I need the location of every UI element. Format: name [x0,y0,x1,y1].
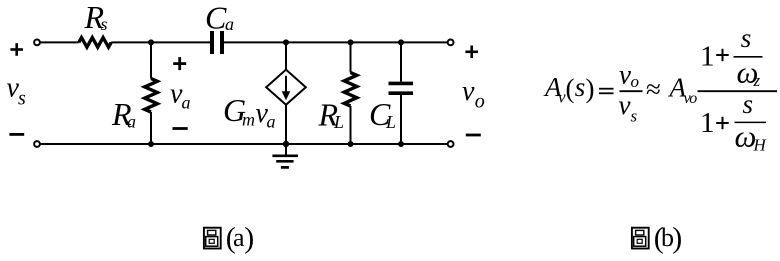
svg-text:o: o [689,90,697,107]
capacitor CL plates [389,83,414,93]
label Rs [84,0,108,35]
svg-text:s: s [631,107,638,126]
node dot bottom of Gm source (ground) [283,141,289,147]
label RL [318,97,345,133]
svg-text:v: v [462,76,475,107]
wire Gm source branch top [285,42,287,69]
svg-text:m: m [242,110,255,130]
output terminal bottom [448,141,454,147]
eq denominator plus [716,117,729,129]
svg-text:a: a [267,111,276,131]
resistor RL zigzag [344,73,357,107]
svg-text:v: v [619,90,631,120]
svg-text:1: 1 [700,107,715,139]
wire bottom rail [40,143,447,145]
svg-text:o: o [475,91,485,113]
svg-text:z: z [753,71,761,90]
eq fraction bar small [620,90,643,92]
resistor Ra zigzag [145,79,158,113]
wire RL branch top [350,42,352,72]
output terminal top [448,40,454,46]
eq numerator small bar [734,56,763,58]
wire top rail Rs to Ca [111,41,210,43]
svg-text:): ) [672,221,682,254]
input terminal bottom [34,141,40,147]
svg-text:≈: ≈ [646,74,661,104]
node dot bottom of Ra [148,141,154,147]
minus sign va [173,127,188,130]
svg-text:1: 1 [700,40,715,72]
label va [170,79,191,113]
eq denominator small bar [735,121,767,123]
svg-text:s: s [18,88,26,110]
svg-text:a: a [233,223,245,252]
svg-text:s: s [101,14,108,34]
wire CL branch top [400,42,402,81]
node dot top of Ra [148,39,154,45]
svg-text:a: a [225,14,234,34]
equation Av(s)= vo/vs approx Avo (1+s/wz)/(1+s/wH) [543,23,777,154]
label Ra [111,96,136,132]
wire Ra branch bottom [150,112,152,144]
node dot top of Gm source [283,39,289,45]
wire CL branch bottom [400,95,402,144]
svg-text:a: a [182,93,191,113]
node dot bottom of CL [398,141,404,147]
wire Gm source branch bottom [285,105,287,144]
caption figure a : drawn CJK glyph for tu [204,228,221,249]
svg-text:H: H [753,136,768,155]
current source arrow [285,76,287,94]
svg-text:v: v [619,60,631,90]
wire top rail Ca to output terminal [224,41,447,43]
label vo [462,76,485,113]
svg-text:s: s [741,23,752,53]
eq equals sign [599,89,614,94]
plus sign input [10,43,23,56]
plus sign va [173,57,186,70]
minus sign output [466,134,481,137]
label CL [369,96,396,132]
svg-text:s: s [743,89,754,119]
minus sign input [9,133,24,136]
eq numerator plus [716,49,729,61]
label Gm va [223,92,276,132]
wire RL branch bottom [350,106,352,144]
svg-text:L: L [333,112,344,132]
resistor Rs zigzag [79,38,111,48]
node dot bottom of RL [348,141,354,147]
eq main fraction bar [698,90,778,92]
svg-text:): ) [244,221,254,254]
label vs [7,73,27,110]
svg-text:o: o [631,72,640,91]
capacitor Ca plates [212,31,222,54]
svg-text:s: s [575,72,586,102]
node dot top of CL [398,39,404,45]
node dot top of RL [348,39,354,45]
svg-text:a: a [127,111,136,131]
svg-text:(: ( [566,74,575,104]
svg-text:L: L [385,112,396,132]
plus sign output [465,46,478,59]
svg-text:): ) [586,74,595,104]
wire top rail left segment [40,41,79,43]
svg-text:C: C [205,0,227,36]
input terminal top [34,40,40,46]
dependent current source Gm*va diamond [266,70,306,105]
caption figure b : drawn CJK glyph for tu [632,228,649,249]
ground [272,144,298,167]
label Ca [205,0,234,36]
wire Ra branch top [150,42,152,78]
